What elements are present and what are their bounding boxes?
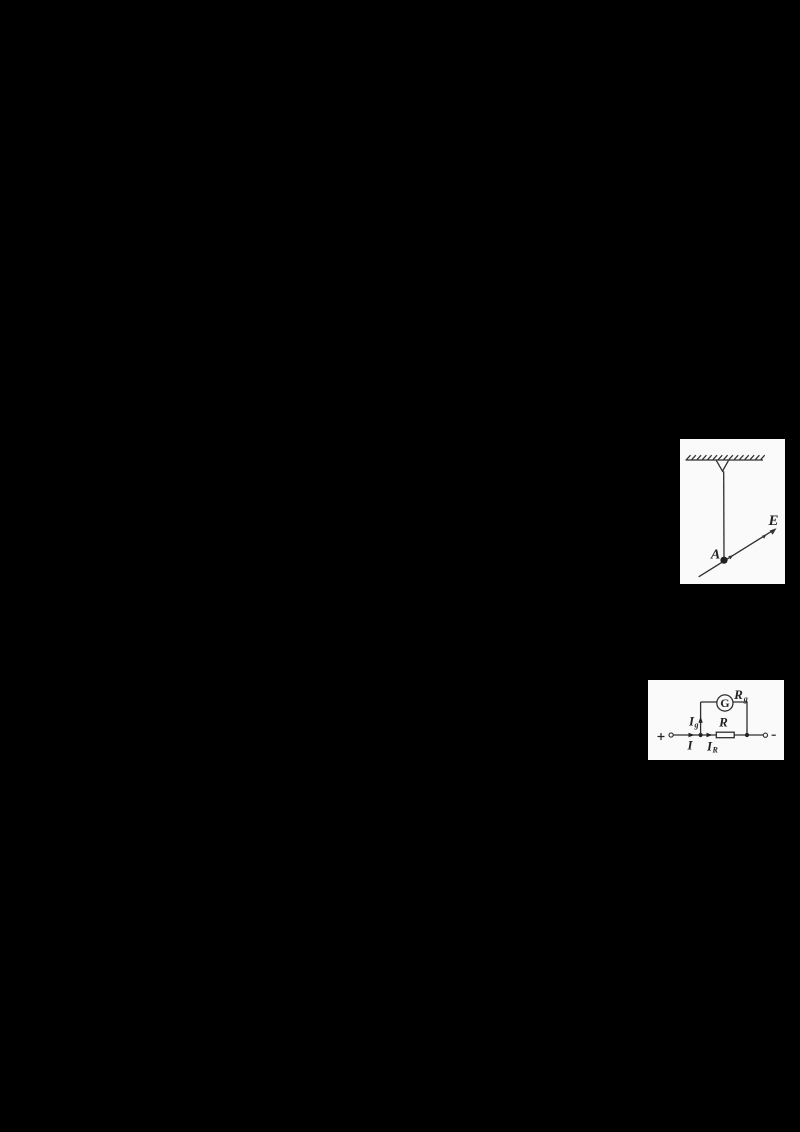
mid-line arrow tick 1 [728, 555, 733, 560]
wire: G to top right corner and down [733, 702, 747, 735]
figure: pendulum with E field [680, 439, 785, 584]
ceiling line [686, 459, 764, 461]
junction node right [745, 733, 749, 737]
svg-text:A: A [710, 548, 720, 563]
svg-text:g: g [694, 721, 699, 730]
svg-text:I: I [686, 738, 693, 753]
galvanometer G circle [717, 695, 733, 711]
svg-text:G: G [720, 696, 729, 710]
pivot triangle hook [716, 460, 728, 471]
wire: top left to G [701, 701, 717, 703]
svg-text:R: R [712, 746, 719, 755]
terminal circle + [669, 733, 673, 737]
arrowhead current Ig (up) [698, 717, 702, 723]
plus sign [658, 733, 665, 740]
arrowhead current I [689, 733, 695, 737]
E field line through A [699, 529, 775, 577]
arrowhead current IR [707, 733, 713, 737]
charge dot A [720, 557, 727, 564]
terminal circle - [763, 733, 767, 737]
svg-text:E: E [767, 513, 778, 529]
resistor R body [716, 732, 734, 738]
mid-line arrow tick 2 [762, 534, 767, 539]
figure: galvanometer shunt circuit [648, 680, 784, 760]
svg-text:g: g [743, 695, 748, 704]
wire: + terminal to resistor [673, 734, 716, 736]
arrowhead of E [770, 528, 777, 535]
junction node left [699, 733, 703, 737]
wire: left branch up [700, 702, 702, 735]
string (wire) [723, 471, 725, 560]
wire: resistor to - terminal [734, 734, 763, 736]
minus sign [772, 734, 776, 736]
svg-text:R: R [718, 715, 728, 730]
svg-text:R: R [733, 687, 743, 702]
ceiling hatching [687, 455, 765, 459]
